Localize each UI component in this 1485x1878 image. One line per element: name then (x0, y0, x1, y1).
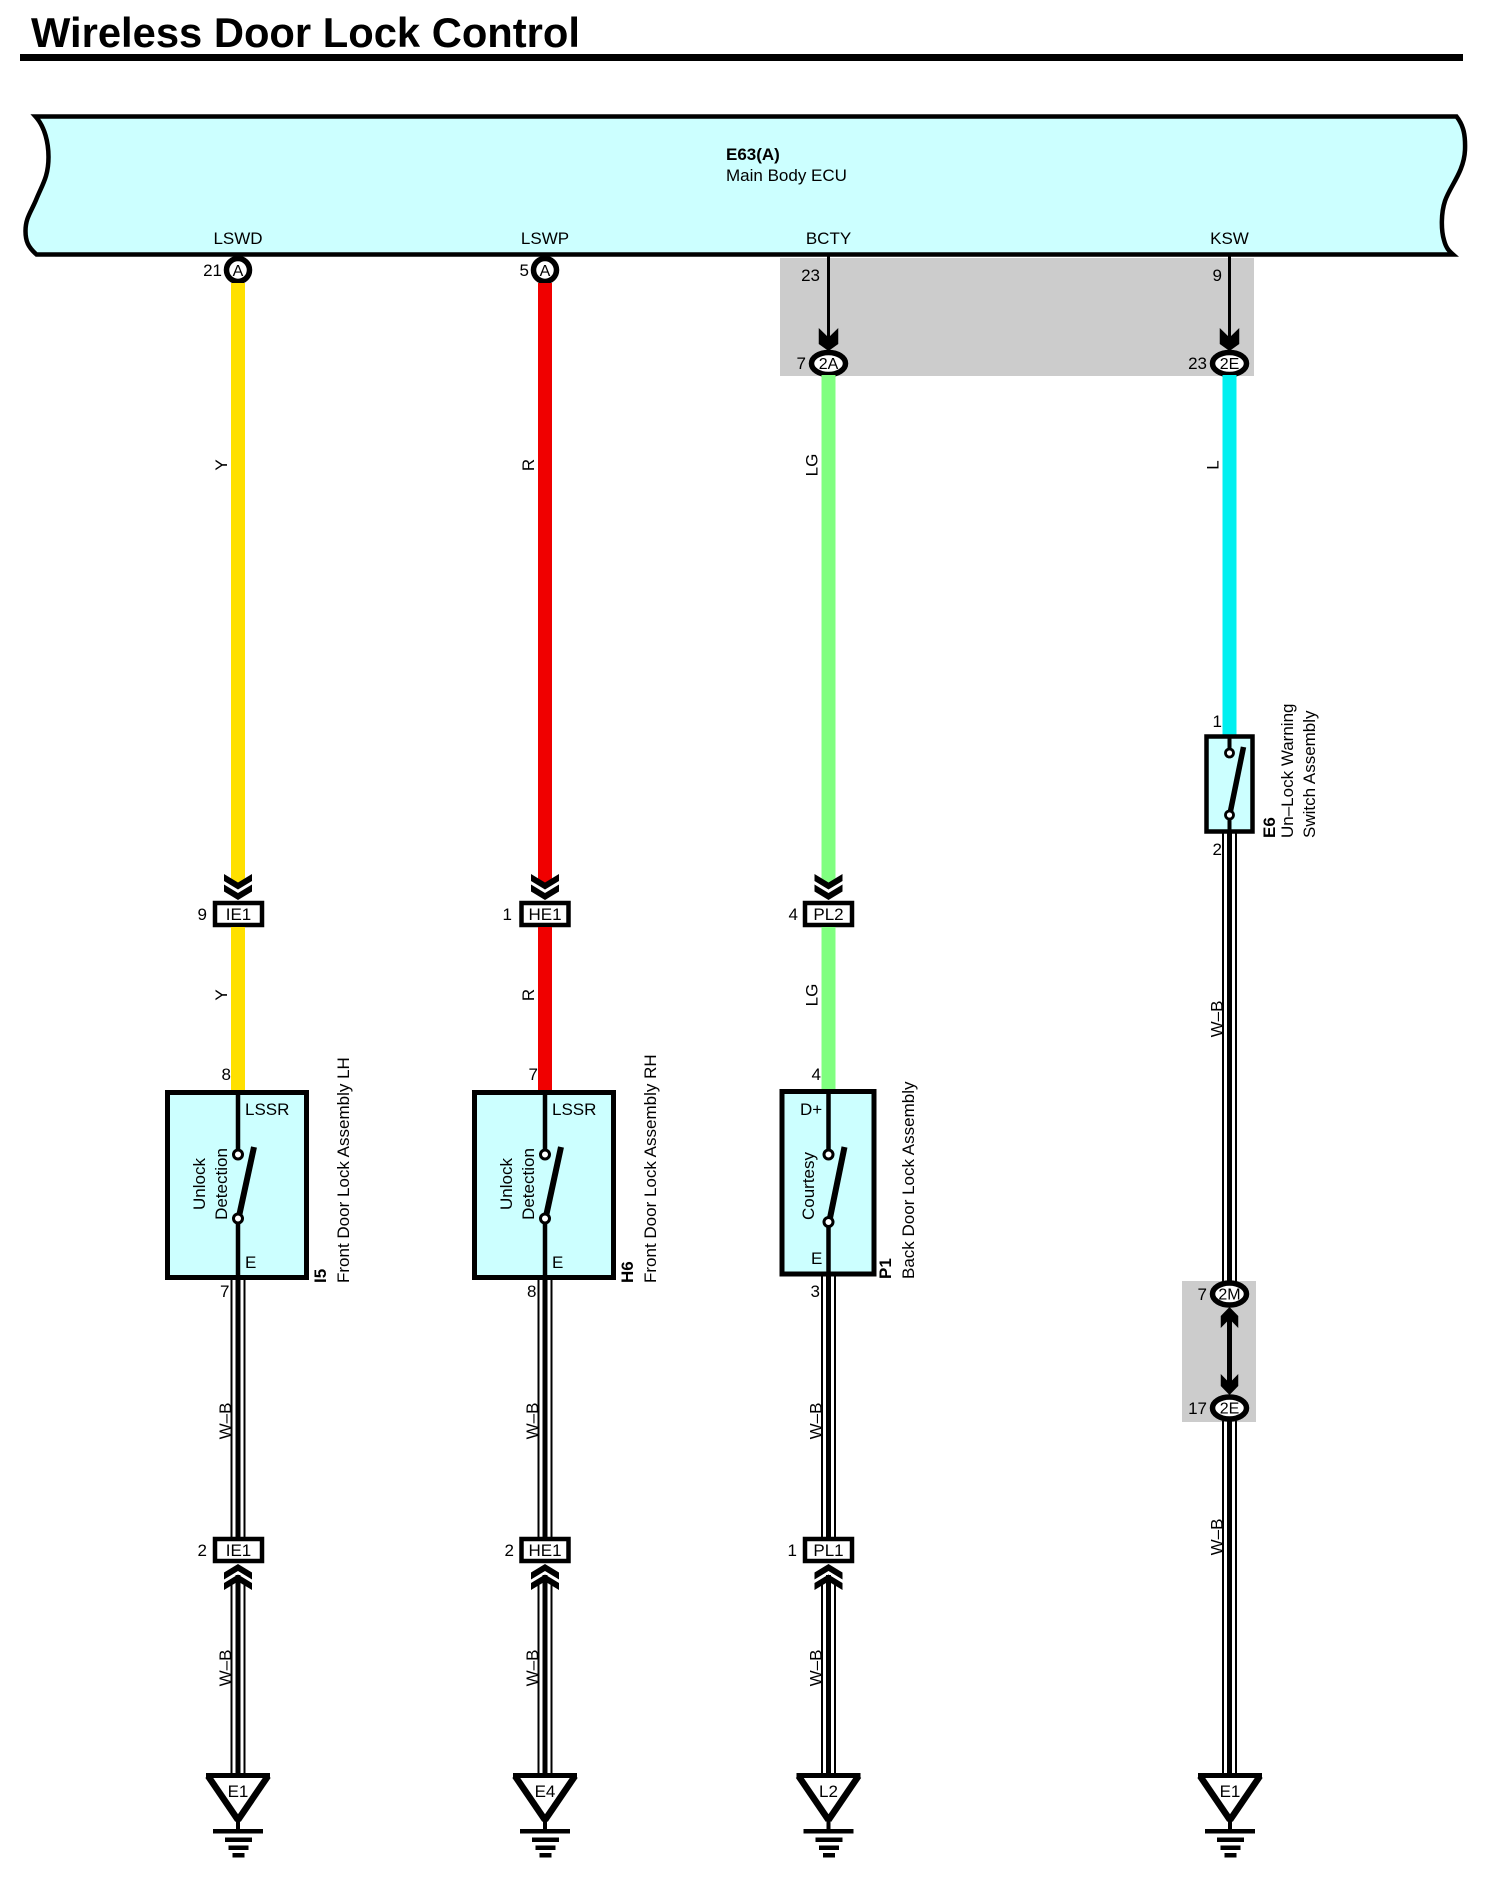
svg-text:L2: L2 (819, 1782, 838, 1801)
wire L (blue) segment KSW to E6 (1204, 375, 1237, 736)
svg-text:23: 23 (801, 266, 820, 285)
svg-text:W–B: W–B (1208, 1001, 1227, 1038)
ECU E63(A) Main Body ECU (26, 117, 1466, 255)
svg-text:KSW: KSW (1210, 229, 1249, 248)
svg-text:LSSR: LSSR (552, 1100, 596, 1119)
svg-text:HE1: HE1 (528, 1541, 561, 1560)
connector 2E pin 17 (right column) (1188, 1397, 1246, 1419)
svg-text:Detection: Detection (519, 1148, 538, 1220)
svg-text:E: E (811, 1249, 822, 1268)
svg-text:4: 4 (789, 905, 798, 924)
wire W-B col4 E6 to 2M (1208, 833, 1238, 1282)
svg-text:3: 3 (811, 1282, 820, 1301)
svg-text:E1: E1 (1220, 1782, 1241, 1801)
wire W-B col2 H6 to HE1 (523, 1280, 553, 1537)
svg-text:W–B: W–B (807, 1650, 826, 1687)
wire W-B col3 P1 to PL1 (807, 1276, 837, 1537)
svg-text:Wireless Door Lock Control: Wireless Door Lock Control (31, 9, 580, 56)
svg-text:8: 8 (222, 1065, 231, 1084)
svg-text:W–B: W–B (1208, 1519, 1227, 1556)
wire W-B col2 HE1 to ground E4 (523, 1575, 553, 1775)
svg-text:1: 1 (503, 905, 512, 924)
junction connector IE1 pin 2 (bottom, col 1) (198, 1539, 262, 1590)
svg-text:Detection: Detection (212, 1148, 231, 1220)
svg-text:4: 4 (812, 1065, 821, 1084)
svg-text:Switch Assembly: Switch Assembly (1300, 710, 1319, 838)
wire Y (yellow) segment 1 LSWD to IE1 (212, 283, 245, 885)
svg-text:9: 9 (198, 905, 207, 924)
svg-text:2: 2 (198, 1541, 207, 1560)
svg-text:17: 17 (1188, 1399, 1207, 1418)
svg-text:P1: P1 (876, 1258, 895, 1279)
junction connector HE1 pin 1 (mid, col 2) (503, 874, 569, 925)
svg-text:2E: 2E (1220, 356, 1240, 373)
svg-text:IE1: IE1 (226, 905, 252, 924)
svg-text:9: 9 (1213, 266, 1222, 285)
ground L2 (col 3) (797, 1773, 861, 1858)
connector 2M pin 7 (1198, 1283, 1247, 1305)
junction connector IE1 pin 9 (mid, col 1) (198, 874, 262, 925)
svg-text:2: 2 (1213, 840, 1222, 859)
gray shield box right (connector region 2M/2E) (1182, 1281, 1256, 1422)
svg-text:E4: E4 (535, 1782, 556, 1801)
svg-text:Courtesy: Courtesy (799, 1151, 818, 1220)
svg-text:LSSR: LSSR (245, 1100, 289, 1119)
svg-text:A: A (540, 263, 551, 280)
wire R (red) segment 1 LSWP to HE1 (519, 283, 552, 885)
connector A pin 21 (LSWD) (203, 259, 249, 282)
svg-text:W–B: W–B (523, 1650, 542, 1687)
svg-text:R: R (519, 459, 538, 471)
svg-text:W–B: W–B (216, 1650, 235, 1687)
svg-text:2M: 2M (1218, 1287, 1240, 1304)
wire R (red) segment 2 HE1 to H6 pin 7 (519, 927, 552, 1090)
svg-text:5: 5 (520, 261, 529, 280)
wire W-B col1 I5 to IE1 (216, 1280, 246, 1537)
svg-text:Y: Y (212, 989, 231, 1000)
wire pin 23 lead from BCTY (801, 256, 838, 351)
svg-text:2: 2 (505, 1541, 514, 1560)
wire W-B col4 2E to ground E1 (1208, 1421, 1238, 1775)
connector 2E pin 23 (top) (1188, 353, 1246, 375)
svg-text:E: E (245, 1253, 256, 1272)
svg-text:PL1: PL1 (813, 1541, 843, 1560)
svg-text:W–B: W–B (523, 1403, 542, 1440)
junction connector HE1 pin 2 (bottom, col 2) (505, 1539, 569, 1590)
switch P1 Back Door Lock Assembly (courtesy switch) (782, 1081, 918, 1301)
svg-text:23: 23 (1188, 354, 1207, 373)
svg-text:R: R (519, 989, 538, 1001)
wire LG (light green) segment 1 BCTY to PL2 (803, 375, 836, 885)
svg-text:H6: H6 (618, 1261, 637, 1283)
svg-text:21: 21 (203, 261, 222, 280)
svg-text:D+: D+ (800, 1100, 822, 1119)
junction connector PL2 pin 4 (mid, col 3) (789, 874, 852, 925)
svg-text:LG: LG (803, 454, 822, 477)
svg-text:8: 8 (527, 1282, 536, 1301)
connector A pin 5 (LSWP) (520, 259, 557, 282)
svg-text:W–B: W–B (216, 1403, 235, 1440)
svg-text:1: 1 (1213, 712, 1222, 731)
svg-text:Y: Y (212, 459, 231, 470)
wire W-B col3 PL1 to ground L2 (807, 1575, 837, 1775)
switch I5 Front Door Lock Assembly LH (unlock detection switch) (168, 1057, 354, 1301)
switch H6 Front Door Lock Assembly RH (unlock detection switch) (475, 1054, 661, 1301)
svg-text:W–B: W–B (807, 1403, 826, 1440)
svg-text:E63(A): E63(A) (726, 145, 780, 164)
svg-text:LSWD: LSWD (213, 229, 262, 248)
title Wireless Door Lock Control (20, 9, 1463, 61)
svg-text:2A: 2A (819, 356, 839, 373)
wire W-B col1 IE1 to ground E1 (216, 1575, 246, 1775)
svg-text:7: 7 (529, 1065, 538, 1084)
svg-text:Unlock: Unlock (190, 1158, 209, 1210)
svg-text:Main Body ECU: Main Body ECU (726, 166, 847, 185)
svg-text:7: 7 (220, 1282, 229, 1301)
wire link 2M to 2E (arrows) (1221, 1307, 1239, 1395)
connector 2A pin 7 (797, 353, 846, 375)
svg-text:Unlock: Unlock (497, 1158, 516, 1210)
junction connector PL1 pin 1 (bottom, col 3) (788, 1539, 852, 1590)
svg-text:PL2: PL2 (813, 905, 843, 924)
svg-text:E1: E1 (228, 1782, 249, 1801)
svg-text:Front Door Lock Assembly RH: Front Door Lock Assembly RH (641, 1054, 660, 1283)
svg-text:Un–Lock Warning: Un–Lock Warning (1278, 704, 1297, 839)
svg-text:A: A (233, 263, 244, 280)
svg-text:LG: LG (803, 984, 822, 1007)
svg-text:HE1: HE1 (528, 905, 561, 924)
svg-text:E: E (552, 1253, 563, 1272)
svg-text:L: L (1204, 460, 1223, 469)
wire pin 9 lead from KSW (1213, 256, 1240, 351)
wire Y (yellow) segment 2 IE1 to I5 pin 8 (212, 927, 245, 1090)
svg-text:7: 7 (797, 354, 806, 373)
svg-text:1: 1 (788, 1541, 797, 1560)
svg-text:Back Door Lock Assembly: Back Door Lock Assembly (899, 1081, 918, 1279)
wire LG (light green) segment 2 PL2 to P1 pin 4 (803, 927, 836, 1089)
svg-text:LSWP: LSWP (521, 229, 569, 248)
ground E1 (col 1) (206, 1773, 270, 1858)
gray shield box top (connector region 2A/2E) (780, 258, 1254, 376)
svg-text:2E: 2E (1220, 1401, 1240, 1418)
svg-text:Front Door Lock Assembly LH: Front Door Lock Assembly LH (334, 1057, 353, 1283)
svg-text:BCTY: BCTY (806, 229, 851, 248)
svg-text:E6: E6 (1260, 817, 1279, 838)
svg-text:I5: I5 (311, 1269, 330, 1283)
ground E4 (col 2) (513, 1773, 577, 1858)
ground E1 (col 4) (1198, 1773, 1262, 1858)
switch E6 Un-Lock Warning Switch Assembly (1207, 704, 1320, 860)
svg-text:IE1: IE1 (226, 1541, 252, 1560)
svg-text:7: 7 (1198, 1285, 1207, 1304)
